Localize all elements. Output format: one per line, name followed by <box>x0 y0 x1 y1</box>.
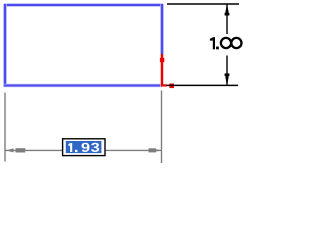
dimension 1.93 value text: digit 1 <box>68 143 72 152</box>
dimension 1.00 value text: second zero <box>231 38 241 48</box>
dimension 1.93 value text: digit 3 <box>91 143 99 152</box>
red leader segment at bottom-right corner <box>161 84 167 86</box>
dimension 1.93 value text: decimal point <box>75 150 77 152</box>
dimension 1.93 value text: digit 9 <box>82 143 90 152</box>
dimension 1.00 bottom arrowhead <box>225 76 229 86</box>
dimension 1.00 line lower segment <box>226 56 228 86</box>
dimension 1.93 line left segment <box>6 149 63 151</box>
sketch line right edge lower (red, selected) <box>160 54 163 87</box>
sketch line right edge upper (blue) <box>160 4 164 55</box>
dimension 1.93 left extension line <box>4 93 6 162</box>
dimension 1.93 line right segment <box>106 149 161 151</box>
point marker on right edge (red square) <box>160 58 164 62</box>
dimension 1.00 bottom arrow grip <box>225 73 230 76</box>
sketch line left edge <box>3 4 7 87</box>
sketch line top edge <box>4 3 163 7</box>
dimension 1.93 left arrowhead <box>6 148 14 152</box>
dimension 1.93 right arrow grip <box>149 148 156 152</box>
dimension 1.00 top extension line <box>167 3 239 5</box>
dimension value edit box (black border, white fill) <box>63 139 105 156</box>
dimension 1.00 top arrowhead <box>225 4 229 13</box>
dimension value selection highlight (blue) <box>66 141 102 153</box>
dimension 1.00 value text: digit 1 <box>210 37 215 49</box>
dimension 1.93 right arrowhead <box>155 149 162 152</box>
dimension 1.00 value text: decimal point <box>216 47 219 50</box>
dimension 1.00 value text: first zero <box>221 38 231 48</box>
sketch line bottom edge <box>4 84 162 88</box>
red arrow grip square on extension line <box>169 84 174 89</box>
dimension 1.93 right extension line <box>161 91 163 164</box>
dimension 1.93 left arrow grip <box>16 148 26 152</box>
dimension 1.00 top arrow grip <box>225 13 230 16</box>
dimension 1.00 line upper segment <box>226 5 228 35</box>
dimension 1.00 bottom extension line <box>167 84 238 86</box>
